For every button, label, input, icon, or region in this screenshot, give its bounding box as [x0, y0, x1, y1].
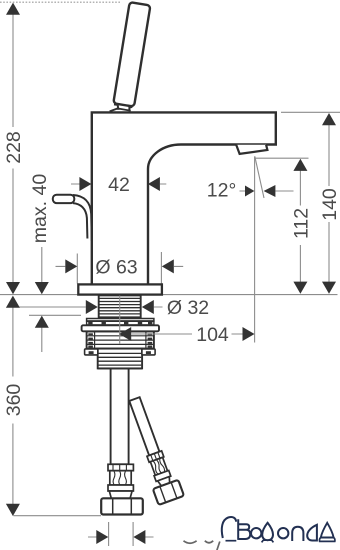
- svg-text:104: 104: [196, 324, 229, 346]
- vertical hose: [98, 368, 143, 514]
- arrow 112 down: [293, 282, 307, 294]
- dim 140 line: [328, 125, 330, 283]
- braid: [110, 471, 131, 485]
- arrow 228 up: [6, 3, 20, 15]
- diagonal hose tube: [129, 397, 159, 455]
- diagonal collar 1: [147, 451, 164, 462]
- handle stub: [114, 104, 132, 111]
- dim G38 ext lines: [109, 522, 134, 546]
- letter o: [278, 528, 288, 538]
- arrow O32 right: [142, 300, 154, 314]
- right foot tab: [142, 349, 155, 355]
- counter bottom reference line (max 40): [29, 314, 81, 316]
- escutcheon left extension line: [76, 254, 78, 284]
- dim 112 line: [299, 170, 301, 283]
- lower shank thread lines: [99, 353, 142, 365]
- cone: [109, 491, 132, 498]
- 12 deg slanted line: [255, 156, 264, 198]
- arrow max40 up (below counter): [35, 316, 49, 328]
- threaded shank upper: [99, 295, 141, 318]
- arrow G38 right: [133, 530, 145, 544]
- arrow G38 left: [96, 530, 108, 544]
- dim O32 leader: [13, 306, 162, 308]
- left foot tab: [85, 349, 98, 355]
- spout top extension line: [281, 111, 340, 113]
- svg-text:12°: 12°: [207, 180, 237, 202]
- arrow 360 up: [6, 296, 20, 308]
- foot ticks: [89, 351, 94, 354]
- pop-up rod elbow: [73, 195, 92, 241]
- flange ring: [82, 325, 159, 331]
- faucet body and spout: [92, 112, 276, 285]
- arrow 42 right: [148, 177, 160, 191]
- watermark logo Vodopad: [222, 517, 335, 542]
- nut knurl boxes: [87, 332, 95, 349]
- countertop reference line: [0, 294, 338, 296]
- serrated lock washer: [87, 321, 154, 325]
- hose end reference line: [13, 515, 101, 517]
- letter V: [238, 519, 250, 540]
- dim 104 line: [132, 333, 243, 335]
- diagonal collar 2: [154, 470, 171, 481]
- faucet center axis line: [119, 296, 121, 344]
- letter d (tent): [321, 523, 334, 538]
- top reference line (dotted, handle top level): [0, 1, 120, 3]
- svg-text:max. 40: max. 40: [29, 174, 51, 244]
- collar 2: [108, 485, 133, 491]
- outlet vertical axis line: [254, 156, 256, 342]
- thin washer: [87, 319, 154, 321]
- arrow 104 right: [243, 327, 255, 341]
- lower shank: [98, 349, 142, 369]
- knurl ticks: [88, 333, 93, 335]
- arrow max40 down: [35, 282, 49, 294]
- handle base mound: [110, 109, 131, 112]
- pop-up rod knob: [53, 195, 75, 203]
- letter o: [251, 528, 261, 538]
- svg-text:112: 112: [291, 208, 313, 239]
- mounting nut body: [87, 332, 154, 349]
- serration ticks: [88, 322, 92, 325]
- svg-text:42: 42: [108, 174, 130, 196]
- arrow O63 left: [65, 259, 77, 273]
- dim 42 tails: [71, 183, 166, 185]
- dim 228 line: [12, 15, 14, 283]
- vertical hose tube: [111, 369, 129, 465]
- escutcheon right extension line: [160, 252, 162, 284]
- svg-text:228: 228: [3, 131, 25, 164]
- arrow O32 left: [86, 300, 98, 314]
- dim G38 tails: [88, 536, 154, 538]
- arrow 12deg left: [245, 186, 254, 197]
- swoosh: [222, 517, 236, 538]
- arrow 140 up: [322, 113, 336, 125]
- arrow 112 up: [293, 159, 307, 171]
- letter d (dome): [262, 523, 273, 540]
- hex nut: [101, 498, 143, 514]
- shank bottom edge: [98, 367, 142, 369]
- faucet handle: [113, 2, 150, 107]
- arrow 140 down: [322, 282, 336, 294]
- svg-text:140: 140: [319, 188, 340, 221]
- arrow 360 down: [6, 504, 20, 516]
- svg-text:360: 360: [3, 384, 25, 417]
- aerator: [236, 145, 267, 154]
- letter p (arch): [292, 527, 303, 541]
- dim O63 tails: [56, 265, 184, 267]
- G38 text fragments: [184, 541, 220, 550]
- diagonal hose: [122, 394, 184, 505]
- nut division lines: [88, 336, 154, 345]
- base plate: [78, 284, 162, 294]
- arrow 228 down: [6, 282, 20, 294]
- diagonal braid: [150, 457, 167, 475]
- dim 12deg tails: [240, 190, 294, 192]
- dim 360 line: [12, 307, 14, 504]
- dim max40 line: [41, 247, 43, 352]
- diagonal hex nut: [153, 480, 184, 505]
- arrow 12deg right: [264, 185, 276, 197]
- arrow 42 left: [79, 177, 91, 191]
- diagonal cone: [158, 477, 172, 487]
- shank thread lines: [100, 298, 141, 317]
- svg-text:Ø 63: Ø 63: [95, 257, 137, 279]
- letter a (droplet): [307, 525, 317, 541]
- arrow O63 right: [162, 259, 174, 273]
- arrow 104 left: [119, 327, 131, 341]
- outlet level extension line: [255, 157, 309, 159]
- svg-text:Ø 32: Ø 32: [167, 297, 209, 319]
- collar 1: [108, 464, 133, 470]
